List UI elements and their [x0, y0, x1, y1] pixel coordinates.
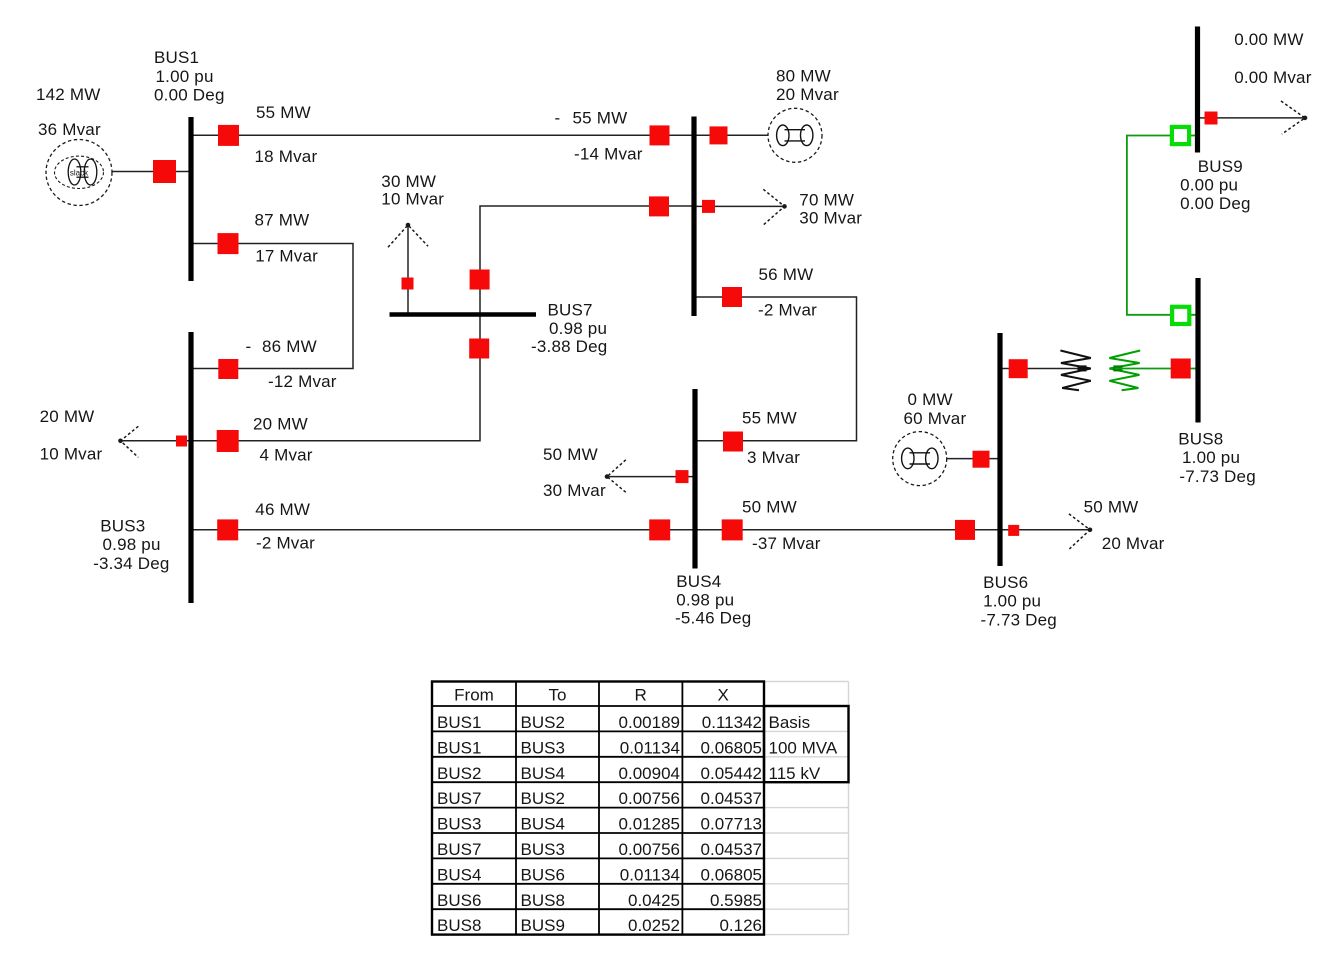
wire load BUS2 — [694, 205, 785, 207]
breaker BUS2 left 55MW — [650, 125, 670, 145]
svg-text:10 Mvar: 10 Mvar — [381, 190, 444, 209]
svg-text:BUS3: BUS3 — [100, 516, 145, 535]
svg-text:50 MW: 50 MW — [742, 497, 797, 516]
svg-text:50 MW: 50 MW — [543, 445, 598, 464]
svg-text:slack: slack — [70, 169, 89, 178]
svg-text:115 kV: 115 kV — [769, 764, 821, 783]
svg-text:0.00 Deg: 0.00 Deg — [154, 86, 225, 105]
svg-text:30 Mvar: 30 Mvar — [799, 209, 862, 228]
breaker BUS7-BUS2 at BUS2 — [649, 196, 669, 216]
breaker BUS1 87MW — [218, 233, 239, 254]
bus BUS6 — [997, 333, 1002, 566]
svg-text:BUS7: BUS7 — [548, 300, 593, 319]
breaker BUS7-BUS3 below BUS7 — [469, 339, 489, 359]
wire gen6 to BUS6 — [947, 458, 1000, 460]
breaker BUS4-BUS6 right — [955, 520, 975, 540]
svg-text:-3.34 Deg: -3.34 Deg — [93, 554, 169, 573]
svg-text:-5.46 Deg: -5.46 Deg — [675, 609, 751, 628]
svg-text:0.04537: 0.04537 — [701, 789, 762, 808]
breaker BUS7 load small — [402, 278, 414, 290]
svg-text:20 MW: 20 MW — [253, 415, 308, 434]
breaker BUS8 transformer — [1171, 359, 1191, 379]
wire load BUS7 arrow up — [407, 225, 409, 315]
svg-text:0.00756: 0.00756 — [619, 840, 680, 859]
svg-text:80 MW: 80 MW — [776, 67, 831, 86]
svg-text:0.00 pu: 0.00 pu — [1180, 175, 1238, 194]
svg-text:55 MW: 55 MW — [742, 409, 797, 428]
wire gen-slack to BUS1 — [112, 171, 191, 173]
svg-text:BUS3: BUS3 — [437, 815, 481, 834]
svg-text:X: X — [718, 686, 729, 705]
breaker BUS4 load small — [676, 470, 689, 483]
svg-text:50 MW: 50 MW — [1084, 497, 1139, 516]
svg-text:46 MW: 46 MW — [255, 500, 310, 519]
svg-text:BUS3: BUS3 — [521, 738, 565, 757]
svg-text:BUS9: BUS9 — [1198, 157, 1243, 176]
svg-text:1.00 pu: 1.00 pu — [983, 592, 1041, 611]
svg-text:0.06805: 0.06805 — [701, 865, 762, 884]
wire gen2 to BUS2 — [694, 134, 768, 136]
transformer T1 black coil — [1060, 351, 1090, 391]
svg-text:BUS1: BUS1 — [437, 738, 481, 757]
breaker BUS4-BUS6 left — [722, 519, 743, 540]
wire load BUS3 arrow left — [121, 440, 192, 442]
svg-text:20 MW: 20 MW — [40, 407, 95, 426]
breaker open green square at BUS8 — [1172, 307, 1189, 324]
svg-text:-14 Mvar: -14 Mvar — [574, 144, 643, 163]
breaker BUS3 20MW — [217, 430, 239, 452]
svg-text:0.5985: 0.5985 — [710, 891, 762, 910]
svg-text:BUS7: BUS7 — [437, 840, 481, 859]
generator G6 at BUS6 — [893, 432, 947, 486]
svg-text:100 MVA: 100 MVA — [769, 738, 838, 757]
breaker BUS1 55MW — [218, 125, 239, 146]
breaker BUS9 load small — [1205, 112, 1218, 125]
breaker slack line — [153, 160, 176, 183]
svg-text:0.00756: 0.00756 — [619, 789, 680, 808]
breaker BUS3 46MW — [217, 519, 238, 540]
bus BUS9 — [1195, 27, 1200, 153]
breaker BUS2 load small — [702, 200, 715, 213]
svg-text:0 MW: 0 MW — [908, 390, 953, 409]
table black grid — [432, 682, 849, 935]
svg-text:-: - — [555, 109, 561, 128]
transformer T1 green junction dot — [1113, 365, 1122, 371]
wire transformer BUS8 side (green) — [1115, 368, 1198, 370]
svg-text:R: R — [635, 686, 647, 705]
wire line BUS2-BUS4 — [694, 297, 857, 441]
transformer T1 black junction dot — [1078, 365, 1087, 371]
breaker BUS6 gen line — [973, 451, 990, 468]
svg-text:4 Mvar: 4 Mvar — [260, 445, 313, 464]
svg-text:70 MW: 70 MW — [799, 190, 854, 209]
breaker BUS6 load small — [1008, 525, 1019, 536]
svg-text:30 Mvar: 30 Mvar — [543, 481, 606, 500]
wire line BUS1-BUS3 — [191, 244, 353, 369]
bus BUS2 — [691, 117, 696, 317]
svg-text:0.01134: 0.01134 — [620, 738, 680, 757]
svg-text:BUS3: BUS3 — [521, 840, 565, 859]
bus BUS1 — [188, 117, 193, 281]
svg-text:87 MW: 87 MW — [255, 210, 310, 229]
svg-text:0.05442: 0.05442 — [701, 764, 762, 783]
svg-text:18 Mvar: 18 Mvar — [255, 147, 318, 166]
wire load BUS9 arrow right — [1198, 117, 1306, 119]
svg-text:-2 Mvar: -2 Mvar — [256, 534, 315, 553]
bus BUS4 — [692, 389, 697, 569]
wire line BUS3-BUS4-BUS6 — [191, 529, 1000, 531]
svg-text:From: From — [454, 686, 494, 705]
svg-text:0.00189: 0.00189 — [619, 713, 680, 732]
wire green BUS8-BUS9 open line — [1127, 136, 1198, 315]
breaker open green square at BUS9 — [1172, 127, 1189, 144]
breaker BUS2 gen line — [710, 126, 728, 144]
svg-text:56 MW: 56 MW — [759, 265, 814, 284]
svg-text:BUS8: BUS8 — [521, 891, 565, 910]
svg-text:BUS2: BUS2 — [521, 789, 565, 808]
svg-text:0.04537: 0.04537 — [701, 840, 762, 859]
svg-text:Basis: Basis — [769, 713, 811, 732]
svg-text:-: - — [246, 337, 252, 356]
wire transformer BUS6 side — [1000, 368, 1081, 370]
bus BUS3 — [188, 332, 193, 603]
svg-text:BUS2: BUS2 — [437, 764, 481, 783]
breaker BUS3-BUS4 right — [649, 519, 670, 540]
svg-text:0.98 pu: 0.98 pu — [103, 535, 161, 554]
svg-text:BUS6: BUS6 — [521, 865, 565, 884]
transformer T1 green coil — [1109, 351, 1140, 391]
svg-text:0.01134: 0.01134 — [620, 865, 680, 884]
breaker BUS2 56MW — [722, 287, 742, 307]
arrowheads (dashed legs + tip dots) — [121, 101, 1306, 549]
breaker BUS3 load small — [176, 436, 187, 447]
svg-text:-7.73 Deg: -7.73 Deg — [1179, 467, 1255, 486]
svg-text:BUS7: BUS7 — [437, 789, 481, 808]
svg-text:BUS8: BUS8 — [437, 916, 481, 935]
svg-text:0.07713: 0.07713 — [701, 815, 762, 834]
table gridlines (light gray excel) — [764, 682, 849, 935]
svg-text:-12 Mvar: -12 Mvar — [268, 372, 337, 391]
svg-text:10 Mvar: 10 Mvar — [40, 444, 103, 463]
breaker BUS7-BUS2 near BUS7 — [470, 270, 490, 290]
svg-text:17 Mvar: 17 Mvar — [255, 246, 318, 265]
svg-text:60 Mvar: 60 Mvar — [904, 409, 967, 428]
wire line BUS1-BUS2 — [191, 134, 694, 136]
wire line BUS7-BUS2 — [480, 206, 694, 315]
svg-text:BUS1: BUS1 — [437, 713, 481, 732]
svg-text:0.00 MW: 0.00 MW — [1234, 30, 1303, 49]
svg-text:0.00 Deg: 0.00 Deg — [1180, 194, 1251, 213]
svg-text:0.06805: 0.06805 — [701, 738, 762, 757]
svg-text:BUS8: BUS8 — [1178, 430, 1223, 449]
svg-text:55 MW: 55 MW — [256, 103, 311, 122]
wire line BUS7-BUS3 — [191, 315, 480, 441]
svg-text:BUS6: BUS6 — [437, 891, 481, 910]
svg-text:-37 Mvar: -37 Mvar — [752, 534, 821, 553]
breaker BUS6 transformer — [1009, 359, 1028, 378]
svg-text:-2 Mvar: -2 Mvar — [758, 300, 817, 319]
svg-text:1.00 pu: 1.00 pu — [156, 67, 214, 86]
breaker BUS4 55MW — [723, 432, 743, 452]
svg-text:BUS1: BUS1 — [154, 48, 199, 67]
breaker BUS3 -86MW — [218, 359, 238, 379]
bus BUS7 (horizontal) — [390, 312, 537, 317]
svg-text:55 MW: 55 MW — [573, 109, 628, 128]
svg-text:BUS2: BUS2 — [521, 713, 565, 732]
svg-text:20 Mvar: 20 Mvar — [1102, 534, 1165, 553]
svg-text:0.00 Mvar: 0.00 Mvar — [1234, 68, 1312, 87]
svg-text:-3.88 Deg: -3.88 Deg — [531, 337, 607, 356]
wire load BUS4 arrow left — [607, 476, 695, 478]
svg-text:20 Mvar: 20 Mvar — [776, 85, 839, 104]
svg-text:0.11342: 0.11342 — [702, 713, 762, 732]
svg-text:-7.73 Deg: -7.73 Deg — [981, 610, 1057, 629]
svg-text:0.0425: 0.0425 — [628, 891, 680, 910]
generator G2 at BUS2 — [768, 108, 822, 162]
wire load BUS6 arrow right — [1000, 529, 1090, 531]
generator G1 slack at BUS1 — [46, 140, 112, 206]
svg-text:142 MW: 142 MW — [36, 85, 101, 104]
svg-text:0.0252: 0.0252 — [628, 916, 680, 935]
svg-text:30 MW: 30 MW — [381, 172, 436, 191]
svg-text:3 Mvar: 3 Mvar — [747, 448, 800, 467]
svg-text:0.01285: 0.01285 — [619, 815, 680, 834]
svg-text:0.98 pu: 0.98 pu — [676, 591, 734, 610]
svg-text:BUS4: BUS4 — [521, 815, 565, 834]
svg-text:0.126: 0.126 — [719, 916, 762, 935]
svg-text:BUS4: BUS4 — [676, 572, 721, 591]
svg-text:BUS4: BUS4 — [437, 865, 481, 884]
svg-text:To: To — [549, 686, 567, 705]
svg-text:0.00904: 0.00904 — [619, 764, 680, 783]
svg-text:36 Mvar: 36 Mvar — [38, 120, 101, 139]
svg-text:86 MW: 86 MW — [262, 337, 317, 356]
svg-text:BUS6: BUS6 — [983, 573, 1028, 592]
svg-text:0.98 pu: 0.98 pu — [549, 319, 607, 338]
svg-text:BUS9: BUS9 — [521, 916, 565, 935]
bus BUS8 — [1195, 278, 1200, 423]
svg-text:1.00 pu: 1.00 pu — [1182, 448, 1240, 467]
svg-text:BUS4: BUS4 — [521, 764, 565, 783]
